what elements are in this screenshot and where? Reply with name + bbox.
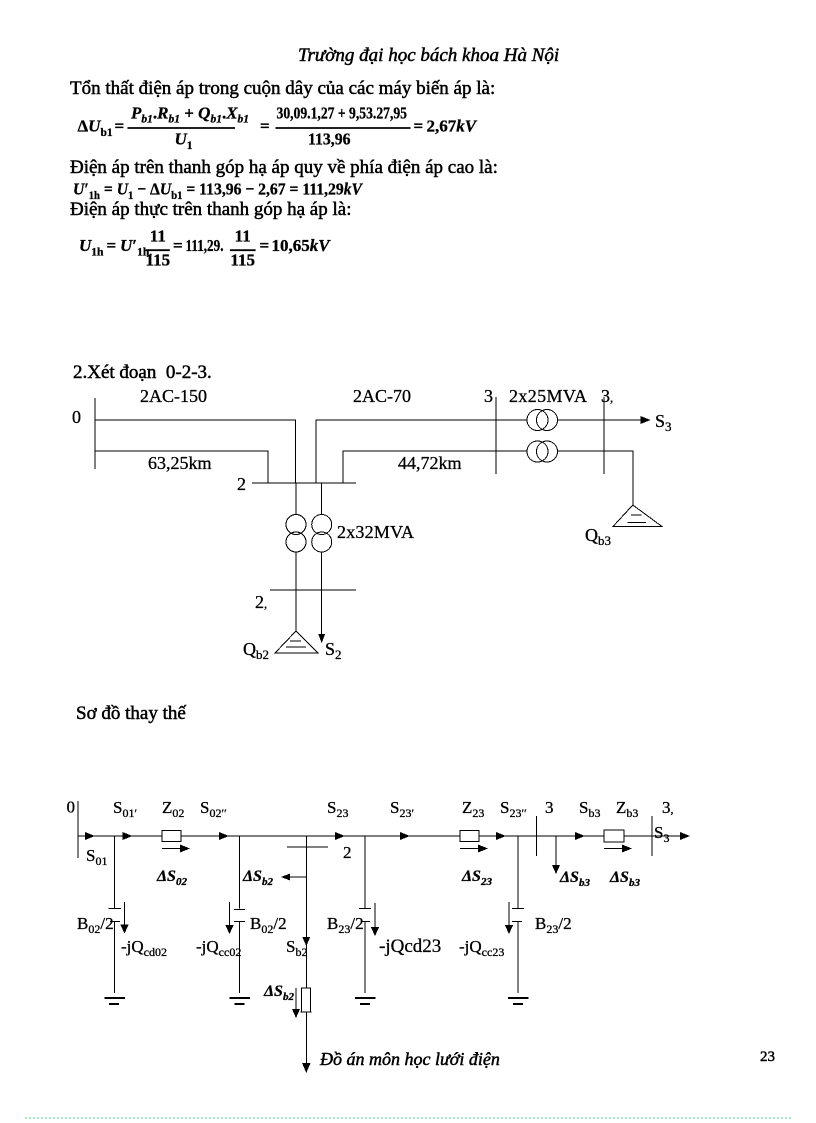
transformer 2x32MVA unit 2 lower wire [321, 552, 323, 590]
svg-text:=: = [260, 236, 270, 255]
svg-text:113,96: 113,96 [308, 130, 351, 149]
svg-text:U1: U1 [175, 130, 193, 153]
svg-text:3: 3 [545, 798, 554, 817]
svg-text:ΔS23: ΔS23 [461, 868, 492, 888]
svg-text:S01: S01 [86, 846, 107, 868]
capacitor bank Qb3 [613, 505, 662, 527]
ground 4 [508, 997, 529, 999]
shunt B23/2 right wire [517, 836, 519, 908]
svg-text:S02′′: S02′′ [200, 798, 227, 820]
node 2' busbar [270, 589, 356, 591]
paragraph line 3 [70, 200, 351, 219]
svg-text:2: 2 [343, 843, 352, 862]
wire Z02 to Z23 [181, 835, 460, 837]
svg-text:Pb1.Rb1 + Qb1.Xb1: Pb1.Rb1 + Qb1.Xb1 [130, 104, 249, 126]
ground 3 [355, 997, 376, 999]
svg-text:-jQcc02: -jQcc02 [196, 937, 241, 959]
wire Z23 to Zb3 [479, 835, 604, 837]
arrow dS0b3 down at node 3 [555, 836, 557, 866]
svg-text:S23′: S23′ [390, 798, 414, 820]
branch Sb2 wire [305, 836, 307, 988]
svg-text:2x32MVA: 2x32MVA [337, 522, 414, 542]
arrow -jQcc23 [508, 902, 510, 926]
capacitor B23/2 right lower wire [517, 922, 519, 994]
impedance Zb3 [604, 830, 624, 842]
svg-text:=: = [115, 117, 125, 136]
capacitor bank Qb2 wire [295, 590, 297, 631]
arrow under Z23 [460, 848, 481, 850]
wire line 2-3 circuit 1 right [558, 419, 643, 421]
svg-text:S23′′: S23′′ [500, 798, 527, 820]
svg-text:=: = [414, 117, 424, 136]
svg-text:30,09.1,27 + 9,53.27,95: 30,09.1,27 + 9,53.27,95 [277, 104, 408, 123]
svg-text:11: 11 [235, 227, 251, 246]
svg-text:B02/2: B02/2 [250, 914, 287, 936]
capacitor B02/2 left lower wire [114, 922, 116, 994]
svg-text:U′1h = U1 − ΔUb1 = 113,96 − 2,: U′1h = U1 − ΔUb1 = 113,96 − 2,67 = 111,2… [73, 180, 364, 203]
svg-text:2,67kV: 2,67kV [427, 117, 478, 136]
wire main 0 to Z02 [78, 835, 162, 837]
svg-text:S3: S3 [654, 823, 669, 845]
svg-text:3,: 3, [601, 386, 613, 406]
impedance Z02 [162, 831, 181, 842]
shunt B02/2 left wire [114, 836, 116, 908]
impedance Z23 [460, 831, 479, 842]
ground 2 [230, 997, 251, 999]
svg-text:2: 2 [237, 474, 246, 494]
transformer 2x32MVA unit 1 wires [295, 483, 297, 515]
node 0 bus [77, 801, 79, 858]
svg-text:Qb3: Qb3 [585, 525, 611, 548]
svg-text:11: 11 [150, 227, 166, 246]
svg-text:=: = [107, 236, 117, 255]
svg-text:ΔUb1: ΔUb1 [78, 117, 113, 140]
svg-text:Qb2: Qb2 [243, 639, 269, 662]
wire Zb2 down [305, 1012, 307, 1064]
svg-text:U1h: U1h [79, 236, 104, 259]
ground 1 [105, 997, 126, 999]
svg-text:3,: 3, [662, 798, 674, 817]
wire line 0-2 circuit 2 [95, 451, 268, 483]
node 2 busbar [252, 482, 356, 484]
capacitor B23/2 left plates [359, 908, 371, 910]
svg-text:-jQcd02: -jQcd02 [121, 937, 167, 959]
capacitor B02/2 right plates [234, 909, 245, 911]
formula 1: delta U b1 [78, 104, 478, 153]
svg-text:111,29.: 111,29. [186, 236, 224, 255]
flow arrowheads on main wire [85, 832, 95, 840]
arrow dSb2 to left [288, 876, 306, 878]
paragraph line 1 [70, 79, 495, 98]
svg-text:=: = [173, 236, 183, 255]
transformer 2x25MVA circuit 2 [527, 441, 548, 462]
svg-text:Z23: Z23 [462, 798, 484, 820]
transformer 2x32MVA unit 1 [286, 515, 306, 535]
svg-text:S01′: S01′ [113, 798, 137, 820]
formula 3: U1h [79, 227, 331, 270]
svg-text:S23: S23 [327, 798, 348, 820]
svg-text:2AC-150: 2AC-150 [140, 386, 207, 406]
transformer 2x32MVA unit 2 wires [321, 483, 323, 515]
capacitor B02/2 right lower wire [239, 922, 241, 994]
transformer 2x32MVA unit 2 [312, 515, 332, 535]
svg-text:ΔSb2: ΔSb2 [263, 983, 294, 1003]
svg-text:44,72km: 44,72km [398, 453, 462, 473]
wire line 2-3 circuit 1 [316, 420, 527, 483]
footer italic [320, 1050, 500, 1068]
svg-text:3: 3 [484, 386, 493, 406]
node 2 busbar [287, 846, 328, 848]
arrowhead S2 load [302, 1063, 310, 1073]
capacitor bank Qb2 [275, 631, 318, 653]
svg-text:0: 0 [67, 798, 76, 817]
svg-text:B02/2: B02/2 [77, 914, 114, 936]
wire line 2-3 circuit 2 right, drop to Qb3 [558, 451, 633, 505]
svg-text:10,65kV: 10,65kV [272, 236, 332, 255]
section heading [73, 363, 212, 382]
node 0 busbar [94, 398, 96, 469]
svg-text:63,25km: 63,25km [148, 453, 212, 473]
arrow under Zb3 [604, 848, 625, 850]
svg-text:0: 0 [72, 407, 81, 427]
transformer 2x32MVA unit 1 lower wire [295, 552, 297, 590]
svg-text:2AC-70: 2AC-70 [353, 386, 411, 406]
wire line 0-2 circuit 1 [95, 420, 296, 483]
arrowhead Sb2 [302, 937, 310, 946]
load arrow S2 [321, 590, 323, 635]
wire line 2-3 circuit 2 [343, 451, 527, 483]
svg-text:S3: S3 [655, 411, 672, 434]
shunt B02/2 right wire [239, 836, 241, 909]
svg-text:-jQcd23: -jQcd23 [379, 936, 441, 957]
svg-text:B23/2: B23/2 [535, 914, 572, 936]
formula 2: U'1h [73, 180, 364, 203]
page number [760, 1050, 775, 1065]
heading so do thay the [76, 704, 186, 723]
capacitor B02/2 left plates [109, 908, 122, 910]
svg-text:ΔSb3: ΔSb3 [559, 869, 590, 889]
svg-text:Sb3: Sb3 [579, 798, 600, 820]
header title [298, 46, 559, 65]
arrow under Z02 [162, 848, 183, 850]
capacitor B23/2 right plates [512, 908, 524, 910]
svg-text:2,: 2, [255, 592, 267, 612]
impedance Zb2 box [302, 988, 311, 1012]
svg-text:Zb3: Zb3 [616, 798, 638, 820]
arrow -jQcd02 [124, 902, 126, 926]
svg-text:Z02: Z02 [162, 798, 184, 820]
node 3' busbar [603, 397, 605, 474]
shunt B23/2 left wire [364, 836, 366, 908]
svg-text:2x25MVA: 2x25MVA [509, 386, 587, 406]
svg-text:ΔSb3: ΔSb3 [609, 869, 640, 889]
load arrowhead S3 end [680, 832, 690, 840]
paragraph line 2 [70, 158, 498, 177]
svg-text:B23/2: B23/2 [327, 914, 364, 936]
svg-text:115: 115 [230, 251, 255, 270]
svg-text:S2: S2 [325, 639, 342, 662]
svg-text:=: = [260, 117, 270, 136]
arrow beside Zb2 [295, 988, 297, 1010]
node 3' bus [651, 816, 653, 856]
svg-text:ΔSb2: ΔSb2 [242, 868, 273, 888]
svg-text:ΔS02: ΔS02 [156, 868, 187, 888]
node 3 bus [536, 816, 538, 856]
bottom dotted separator [25, 1117, 791, 1119]
arrow -jQcc02 [229, 902, 231, 926]
capacitor B23/2 left lower wire [364, 922, 366, 994]
svg-text:115: 115 [146, 251, 171, 270]
wire Zb3 to S3 [624, 835, 682, 837]
svg-text:-jQcc23: -jQcc23 [459, 937, 504, 959]
node 3 busbar [495, 397, 497, 474]
load arrow S3 [642, 419, 650, 421]
arrow -jQcd23 [374, 903, 376, 928]
transformer 2x25MVA circuit 1 [527, 410, 548, 431]
